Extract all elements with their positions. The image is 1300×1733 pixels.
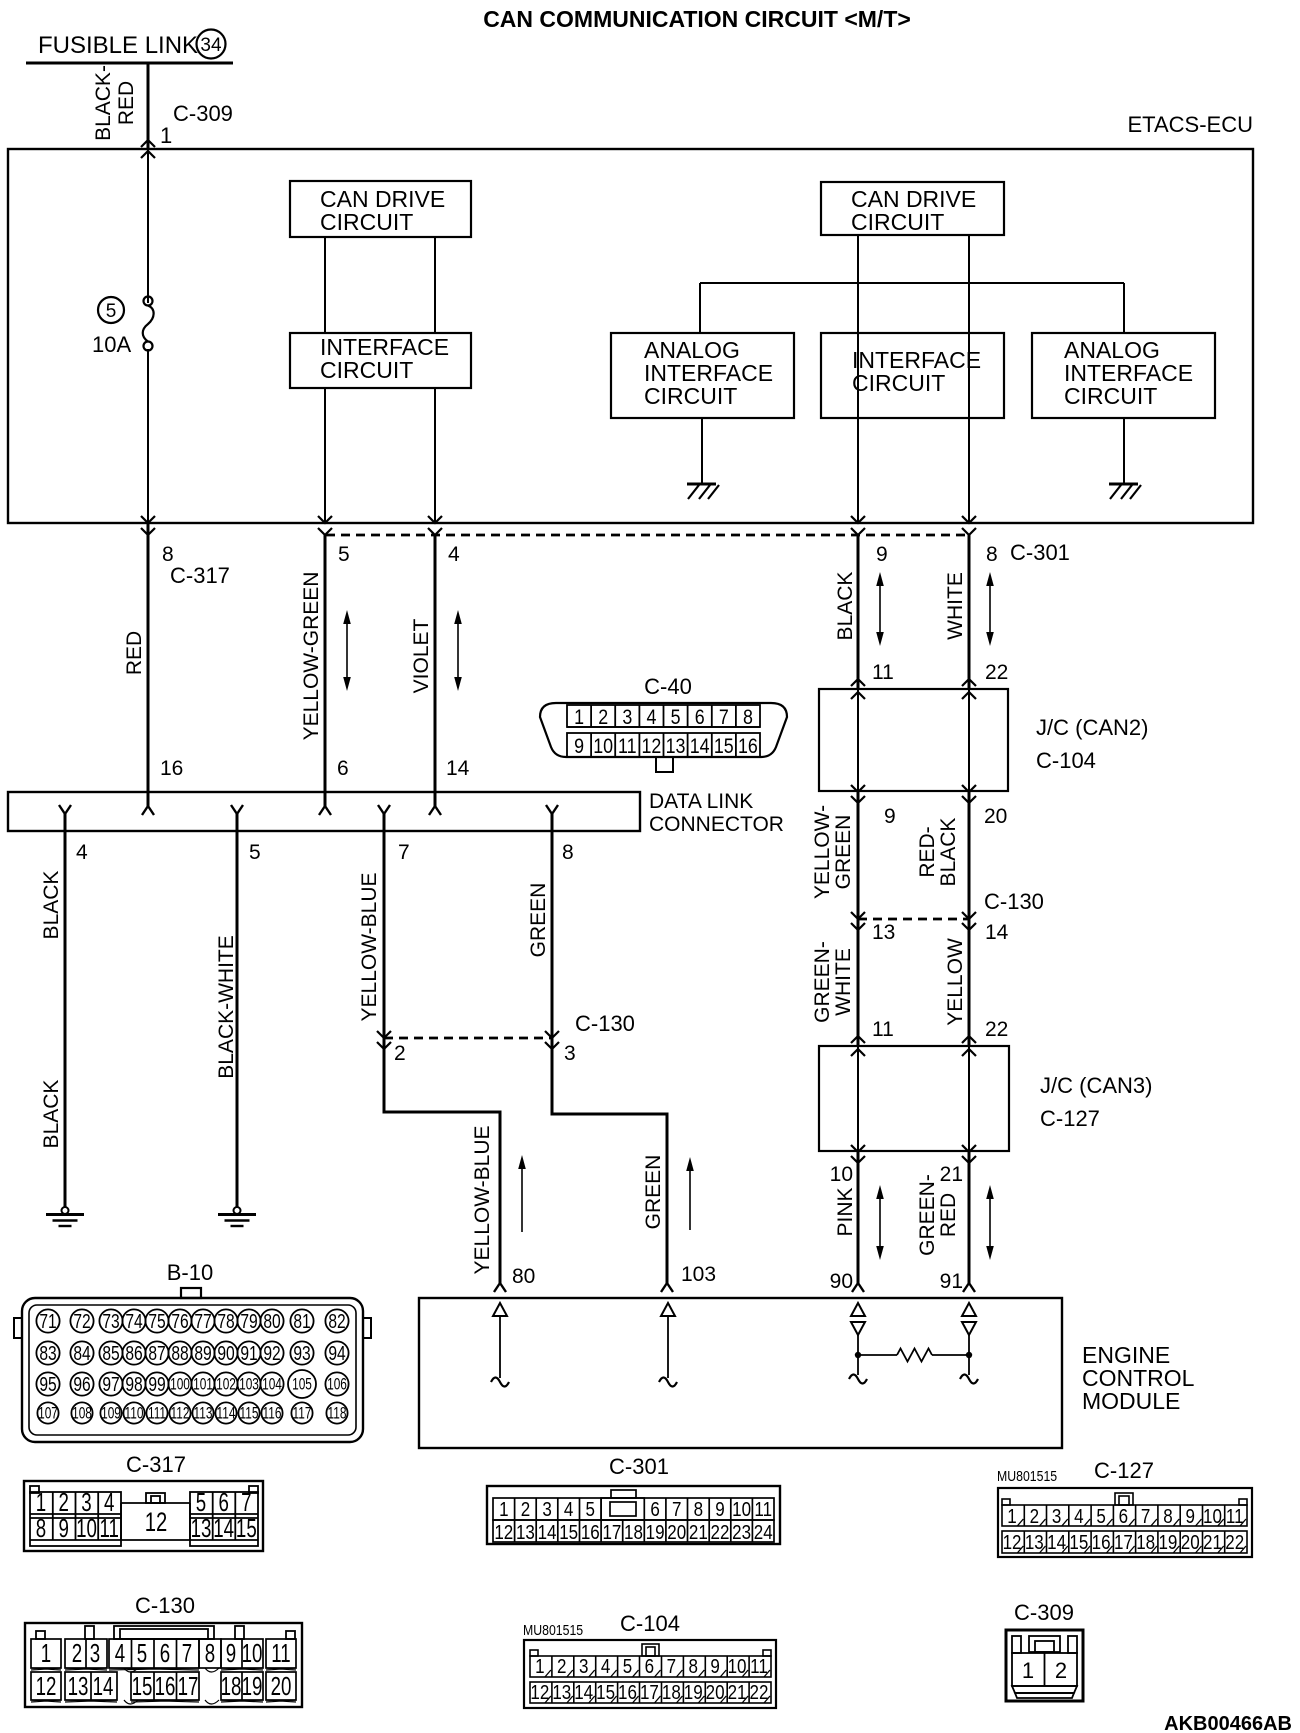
svg-text:RED: RED [115, 81, 138, 125]
svg-text:77: 77 [194, 1310, 211, 1332]
wire YELLOW C-130/14 to C-127 pin 22 [968, 919, 971, 1046]
wire RED-BLACK C-104/20 to C-130 pin 14 [968, 791, 971, 919]
svg-text:11: 11 [271, 1638, 290, 1668]
svg-text:YELLOW: YELLOW [944, 938, 967, 1026]
svg-text:9: 9 [884, 805, 896, 828]
svg-text:113: 113 [194, 1405, 213, 1423]
svg-text:4: 4 [1074, 1505, 1083, 1528]
svg-text:12: 12 [1003, 1531, 1022, 1554]
svg-text:5: 5 [671, 706, 681, 730]
svg-text:10: 10 [76, 1513, 97, 1543]
svg-text:71: 71 [39, 1310, 56, 1332]
chevrons exiting J/C CAN2 pin 20 [962, 785, 976, 792]
svg-text:2: 2 [72, 1638, 82, 1668]
signal double arrow CAN-H right [879, 582, 881, 636]
svg-text:115: 115 [240, 1405, 259, 1423]
chevrons C-130 pin 14 [962, 912, 976, 919]
svg-text:PINK: PINK [834, 1187, 857, 1236]
svg-text:4: 4 [601, 1655, 610, 1678]
svg-text:4: 4 [76, 841, 88, 864]
stub to analog interface right [1123, 283, 1125, 333]
svg-text:7: 7 [672, 1498, 681, 1521]
wire analog interface left to ground [701, 418, 703, 484]
svg-text:76: 76 [171, 1310, 188, 1332]
svg-text:17: 17 [640, 1681, 659, 1704]
svg-text:7: 7 [719, 706, 729, 730]
svg-text:CAN COMMUNICATION CIRCUIT <M/T: CAN COMMUNICATION CIRCUIT <M/T> [483, 6, 911, 32]
chevrons C-301 pin 5 exit [318, 516, 332, 523]
svg-text:16: 16 [1092, 1531, 1111, 1554]
chevrons C-301 pin 8 exit [962, 516, 976, 523]
box J/C (CAN2) C-104 [819, 689, 1008, 791]
svg-text:7: 7 [182, 1638, 192, 1668]
svg-text:DATA LINK: DATA LINK [649, 790, 753, 813]
svg-text:C-130: C-130 [984, 889, 1044, 914]
wire YELLOW-GREEN C-104/9 to C-130 pin 13 [857, 791, 860, 919]
svg-text:4: 4 [115, 1638, 125, 1668]
svg-text:88: 88 [171, 1342, 188, 1364]
wires inside J/C CAN2 [857, 689, 859, 791]
svg-text:19: 19 [242, 1671, 263, 1701]
wire analog interface right to ground [1123, 418, 1125, 484]
svg-text:11: 11 [100, 1513, 119, 1543]
connector C-301 face cells [493, 1490, 774, 1542]
signal arrow up pin 103 [689, 1167, 691, 1230]
svg-text:MODULE: MODULE [1082, 1388, 1180, 1414]
svg-text:9: 9 [715, 1498, 724, 1521]
svg-text:85: 85 [102, 1342, 119, 1364]
svg-text:91: 91 [940, 1270, 963, 1293]
connector C-130 keying hatches [31, 1668, 296, 1704]
svg-text:14: 14 [446, 757, 470, 780]
svg-text:1: 1 [1022, 1658, 1034, 1683]
connector C-130 dashed crossing right [858, 918, 969, 921]
svg-text:5: 5 [338, 543, 350, 566]
connector C-130 dashed crossing left [384, 1037, 552, 1040]
svg-text:BLACK: BLACK [40, 871, 63, 940]
ECM pin 80 internals [493, 1303, 507, 1316]
svg-text:83: 83 [39, 1342, 56, 1364]
svg-text:3: 3 [1052, 1505, 1061, 1528]
svg-text:13: 13 [516, 1521, 535, 1544]
svg-text:C-127: C-127 [1094, 1458, 1154, 1483]
svg-text:ETACS-ECU: ETACS-ECU [1128, 112, 1254, 137]
box CAN DRIVE CIRCUIT right [821, 182, 1004, 235]
svg-text:19: 19 [684, 1681, 703, 1704]
svg-text:13: 13 [191, 1513, 212, 1543]
svg-text:118: 118 [328, 1405, 347, 1423]
svg-text:21: 21 [1203, 1531, 1222, 1554]
wire CAN drive L to interface L pin b [434, 237, 436, 333]
svg-text:GREEN-: GREEN- [916, 1174, 939, 1256]
svg-text:81: 81 [293, 1310, 310, 1332]
svg-text:16: 16 [581, 1521, 600, 1544]
connector C-127 face cells [1002, 1493, 1247, 1553]
svg-text:90: 90 [217, 1342, 234, 1364]
svg-text:AKB00466AB: AKB00466AB [1164, 1713, 1292, 1733]
box ANALOG INTERFACE CIRCUIT left [611, 333, 794, 418]
svg-text:112: 112 [171, 1405, 190, 1423]
chevrons exiting J/C CAN3 pin 21 [962, 1145, 976, 1152]
svg-text:WHITE: WHITE [944, 572, 967, 640]
svg-text:108: 108 [72, 1405, 92, 1423]
svg-text:95: 95 [39, 1373, 56, 1395]
svg-text:87: 87 [148, 1342, 165, 1364]
wire CAN-L right [968, 235, 970, 523]
svg-text:86: 86 [125, 1342, 142, 1364]
svg-text:YELLOW-: YELLOW- [811, 805, 834, 899]
svg-text:BLACK-WHITE: BLACK-WHITE [215, 935, 238, 1079]
svg-text:19: 19 [646, 1521, 665, 1544]
svg-text:VIOLET: VIOLET [410, 618, 433, 693]
svg-text:14: 14 [538, 1521, 557, 1544]
svg-text:1: 1 [160, 123, 172, 148]
wire from C-309 pin 1 to fuse 5 [147, 149, 149, 303]
svg-text:GREEN: GREEN [527, 883, 550, 958]
svg-text:10: 10 [593, 735, 613, 759]
svg-text:16: 16 [160, 757, 183, 780]
connector B-10 outline [22, 1298, 363, 1442]
svg-text:73: 73 [102, 1310, 119, 1332]
svg-text:2: 2 [1030, 1505, 1039, 1528]
chevrons C-130 pin 2 [377, 1031, 391, 1038]
chevrons entering ETACS-ECU at C-309 [141, 140, 155, 147]
chevrons C-130 pin 13 [851, 912, 865, 919]
wire GREEN-WHITE C-130/13 to C-127 pin 11 [857, 919, 860, 1046]
connector C-104 face cells [530, 1644, 771, 1703]
svg-text:80: 80 [263, 1310, 280, 1332]
junction node pin 90 [855, 1352, 861, 1358]
svg-text:14: 14 [574, 1681, 593, 1704]
svg-text:20: 20 [984, 805, 1007, 828]
connector C-301 face outline [487, 1486, 780, 1544]
svg-text:78: 78 [217, 1310, 234, 1332]
svg-text:BLACK: BLACK [937, 818, 960, 887]
wire interface L to C-301 pin 5 [324, 388, 326, 523]
svg-text:82: 82 [328, 1310, 345, 1332]
svg-text:109: 109 [101, 1405, 121, 1423]
svg-text:22: 22 [985, 661, 1008, 684]
svg-text:22: 22 [711, 1521, 730, 1544]
wire BLACK DLC/4 to ground [64, 831, 67, 1207]
svg-text:20: 20 [271, 1671, 292, 1701]
signal double arrow pin 91 [989, 1195, 991, 1250]
svg-text:4: 4 [646, 706, 656, 730]
svg-text:J/C (CAN2): J/C (CAN2) [1036, 715, 1148, 740]
svg-text:15: 15 [132, 1671, 153, 1701]
svg-text:12: 12 [494, 1521, 513, 1544]
svg-text:12: 12 [145, 1507, 168, 1538]
svg-text:BLACK-: BLACK- [92, 65, 115, 141]
connector C-317 face details [30, 1486, 258, 1546]
connector B-10 side tabs [14, 1318, 22, 1338]
box ANALOG INTERFACE CIRCUIT right [1032, 333, 1215, 418]
svg-text:97: 97 [102, 1373, 119, 1395]
wire VIOLET C-301/4 to DLC pin 14 [434, 535, 437, 806]
signal double arrow CAN-L right [989, 582, 991, 636]
svg-text:10: 10 [242, 1638, 263, 1668]
svg-text:6: 6 [650, 1498, 659, 1521]
chevrons C-301 pin 9 exit [851, 516, 865, 523]
chevrons exiting J/C CAN2 pin 9 [851, 785, 865, 792]
box CAN DRIVE CIRCUIT left [290, 181, 471, 237]
svg-text:15: 15 [1069, 1531, 1088, 1554]
svg-text:110: 110 [125, 1405, 144, 1423]
svg-text:CIRCUIT: CIRCUIT [320, 357, 413, 383]
ground internal left [687, 484, 719, 499]
box INTERFACE CIRCUIT right [821, 333, 1004, 418]
svg-text:96: 96 [73, 1373, 90, 1395]
svg-text:2: 2 [598, 706, 608, 730]
svg-text:102: 102 [216, 1376, 236, 1394]
connector B-10 top tab [181, 1288, 201, 1298]
svg-text:8: 8 [205, 1638, 215, 1668]
fuse number circle 5 [98, 297, 124, 323]
svg-text:11: 11 [1226, 1505, 1244, 1528]
svg-text:9: 9 [59, 1513, 69, 1543]
wire CAN-H right [857, 235, 859, 523]
svg-text:2: 2 [1055, 1658, 1067, 1683]
chevrons exiting J/C CAN3 pin 10 [851, 1145, 865, 1152]
svg-text:WHITE: WHITE [832, 948, 855, 1016]
connector C-309 face details [1012, 1636, 1077, 1698]
svg-text:13: 13 [666, 735, 686, 759]
svg-text:C-104: C-104 [1036, 748, 1096, 773]
svg-text:10A: 10A [92, 332, 131, 357]
svg-text:15: 15 [714, 735, 734, 759]
signal double arrow left CAN-L [457, 620, 459, 681]
svg-text:18: 18 [624, 1521, 643, 1544]
connector C-127 face outline [998, 1488, 1252, 1557]
svg-text:C-104: C-104 [620, 1611, 680, 1636]
svg-text:14: 14 [985, 921, 1009, 944]
svg-text:7: 7 [667, 1655, 676, 1678]
svg-text:1: 1 [574, 706, 584, 730]
svg-text:5: 5 [623, 1655, 632, 1678]
wire BLACK-RED from fusible link to C-309 pin 1 [147, 63, 150, 149]
svg-text:16: 16 [738, 735, 758, 759]
connector C-127 key slashes [1017, 1519, 1246, 1553]
svg-text:6: 6 [645, 1655, 654, 1678]
svg-text:18: 18 [1136, 1531, 1155, 1554]
svg-text:22: 22 [985, 1018, 1008, 1041]
svg-text:9: 9 [574, 735, 584, 759]
svg-text:16: 16 [155, 1671, 176, 1701]
branch wire to analog interface circuits [700, 282, 1124, 284]
connector C-40 bottom tab [656, 757, 673, 772]
svg-text:100: 100 [170, 1376, 190, 1394]
wire interface L to C-301 pin 4 [434, 388, 436, 523]
svg-text:3: 3 [579, 1655, 588, 1678]
svg-text:22: 22 [749, 1681, 768, 1704]
wire GREEN-RED C-127/21 to ECM pin 91 [968, 1151, 971, 1283]
svg-text:7: 7 [1141, 1505, 1150, 1528]
ground earth left [46, 1207, 84, 1226]
svg-text:22: 22 [1225, 1531, 1244, 1554]
svg-text:8: 8 [743, 706, 753, 730]
svg-text:GREEN: GREEN [642, 1155, 665, 1230]
ground internal right [1109, 484, 1141, 499]
svg-text:5: 5 [106, 301, 117, 322]
connector C-130 cells [31, 1639, 296, 1700]
svg-text:C-301: C-301 [1010, 540, 1070, 565]
wire BLACK C-301/9 to C-104 pin 11 [857, 535, 860, 689]
svg-text:C-40: C-40 [644, 674, 692, 699]
svg-text:80: 80 [512, 1265, 535, 1288]
svg-text:6: 6 [160, 1638, 170, 1668]
svg-text:21: 21 [728, 1681, 747, 1704]
svg-text:19: 19 [1158, 1531, 1177, 1554]
svg-text:5: 5 [1096, 1505, 1105, 1528]
svg-text:92: 92 [263, 1342, 280, 1364]
svg-text:YELLOW-BLUE: YELLOW-BLUE [358, 873, 381, 1022]
svg-text:14: 14 [690, 735, 710, 759]
svg-text:11: 11 [754, 1498, 772, 1521]
svg-text:12: 12 [642, 735, 662, 759]
ECM pin 91 internals [962, 1303, 976, 1316]
svg-text:RED: RED [937, 1193, 960, 1237]
svg-text:23: 23 [732, 1521, 751, 1544]
connector C-40 outline [540, 703, 787, 757]
connector C-301 dashed crossing line [326, 534, 969, 537]
svg-text:5: 5 [586, 1498, 595, 1521]
svg-text:10: 10 [830, 1163, 853, 1186]
wire YELLOW-BLUE C-130/2 to ECM pin 80 [384, 1038, 500, 1283]
svg-text:72: 72 [73, 1310, 90, 1332]
wire WHITE C-301/8 to C-104 pin 22 [968, 535, 971, 689]
wire PINK C-127/10 to ECM pin 90 [857, 1151, 860, 1283]
svg-text:21: 21 [689, 1521, 708, 1544]
wire YELLOW-GREEN C-301/5 to DLC pin 6 [324, 535, 327, 806]
svg-text:GREEN: GREEN [832, 815, 855, 890]
wire CAN drive L to interface L pin a [324, 237, 326, 333]
svg-text:14: 14 [213, 1513, 234, 1543]
signal double arrow left CAN-H [346, 620, 348, 681]
svg-text:13: 13 [872, 921, 895, 944]
svg-text:11: 11 [750, 1655, 768, 1678]
svg-text:5: 5 [249, 841, 261, 864]
svg-text:10: 10 [728, 1655, 747, 1678]
svg-text:89: 89 [194, 1342, 211, 1364]
signal arrow up pin 80 [521, 1165, 523, 1232]
DLC exit stubs [64, 814, 67, 831]
svg-text:21: 21 [940, 1163, 963, 1186]
chevrons entering J/C CAN2 pin 11 [851, 679, 865, 686]
chevrons entering J/C CAN3 pin 22 [962, 1036, 976, 1043]
svg-text:111: 111 [148, 1405, 166, 1423]
svg-text:YELLOW-BLUE: YELLOW-BLUE [471, 1126, 494, 1275]
svg-text:8: 8 [562, 841, 574, 864]
connector B-10 pin circles [36, 1309, 348, 1423]
svg-text:15: 15 [596, 1681, 615, 1704]
svg-text:74: 74 [125, 1310, 142, 1332]
svg-text:2: 2 [394, 1042, 406, 1065]
svg-text:J/C (CAN3): J/C (CAN3) [1040, 1073, 1152, 1098]
wires inside J/C CAN3 [857, 1046, 859, 1151]
svg-text:CIRCUIT: CIRCUIT [852, 370, 945, 396]
svg-text:RED-: RED- [916, 826, 939, 877]
svg-text:107: 107 [38, 1405, 58, 1423]
connector C-104 key slashes [545, 1670, 770, 1703]
chevrons entering J/C CAN3 pin 11 [851, 1036, 865, 1043]
svg-text:18: 18 [662, 1681, 681, 1704]
svg-text:3: 3 [90, 1638, 100, 1668]
svg-text:14: 14 [93, 1671, 114, 1701]
svg-text:3: 3 [622, 706, 632, 730]
svg-text:4: 4 [564, 1498, 573, 1521]
svg-text:13: 13 [552, 1681, 571, 1704]
svg-text:10: 10 [732, 1498, 751, 1521]
svg-text:1: 1 [535, 1655, 544, 1678]
connector C-40 pin grid [567, 705, 760, 757]
svg-text:16: 16 [618, 1681, 637, 1704]
svg-text:MU801515: MU801515 [523, 1622, 583, 1638]
svg-text:RED: RED [123, 631, 146, 675]
svg-text:8: 8 [1163, 1505, 1172, 1528]
svg-text:13: 13 [68, 1671, 89, 1701]
svg-text:C-309: C-309 [173, 101, 233, 126]
svg-text:90: 90 [830, 1270, 853, 1293]
svg-text:3: 3 [542, 1498, 551, 1521]
wire GREEN DLC/8 to C-130 pin 3 [551, 831, 554, 1038]
svg-text:101: 101 [193, 1376, 213, 1394]
svg-text:34: 34 [200, 35, 222, 56]
chevrons entering J/C CAN2 pin 22 [962, 679, 976, 686]
svg-text:9: 9 [876, 543, 888, 566]
svg-text:1: 1 [1007, 1505, 1016, 1528]
terminating resistor between pins 90 and 91 [858, 1354, 897, 1356]
svg-text:1: 1 [499, 1498, 508, 1521]
svg-text:20: 20 [667, 1521, 686, 1544]
svg-text:C-301: C-301 [609, 1454, 669, 1479]
svg-text:BLACK: BLACK [40, 1080, 63, 1149]
chevrons C-130 pin 3 [545, 1031, 559, 1038]
svg-text:C-130: C-130 [135, 1593, 195, 1618]
svg-text:20: 20 [1181, 1531, 1200, 1554]
svg-text:13: 13 [1025, 1531, 1044, 1554]
svg-text:8: 8 [688, 1655, 697, 1678]
svg-text:103: 103 [239, 1376, 259, 1394]
svg-text:7: 7 [398, 841, 410, 864]
svg-text:GREEN-: GREEN- [811, 941, 834, 1023]
svg-text:5: 5 [137, 1638, 147, 1668]
svg-text:15: 15 [559, 1521, 578, 1544]
svg-text:YELLOW-GREEN: YELLOW-GREEN [300, 572, 323, 741]
svg-text:104: 104 [262, 1376, 282, 1394]
svg-text:C-317: C-317 [126, 1452, 186, 1477]
svg-text:C-130: C-130 [575, 1011, 635, 1036]
svg-text:14: 14 [1047, 1531, 1066, 1554]
ECM pin 90 internals [851, 1303, 865, 1316]
svg-text:24: 24 [754, 1521, 773, 1544]
svg-text:15: 15 [236, 1513, 257, 1543]
svg-text:99: 99 [148, 1373, 165, 1395]
svg-text:2: 2 [557, 1655, 566, 1678]
svg-text:4: 4 [448, 543, 460, 566]
svg-text:MU801515: MU801515 [997, 1468, 1057, 1484]
wire RED C-317/8 to DLC pin 16 [147, 523, 150, 806]
svg-text:6: 6 [1119, 1505, 1128, 1528]
svg-text:116: 116 [263, 1405, 282, 1423]
svg-text:17: 17 [1114, 1531, 1133, 1554]
svg-text:17: 17 [602, 1521, 621, 1544]
box INTERFACE CIRCUIT left [290, 333, 471, 388]
svg-text:8: 8 [986, 543, 998, 566]
svg-text:18: 18 [221, 1671, 242, 1701]
svg-text:BLACK: BLACK [834, 572, 857, 641]
svg-text:12: 12 [36, 1671, 57, 1701]
svg-text:94: 94 [328, 1342, 345, 1364]
